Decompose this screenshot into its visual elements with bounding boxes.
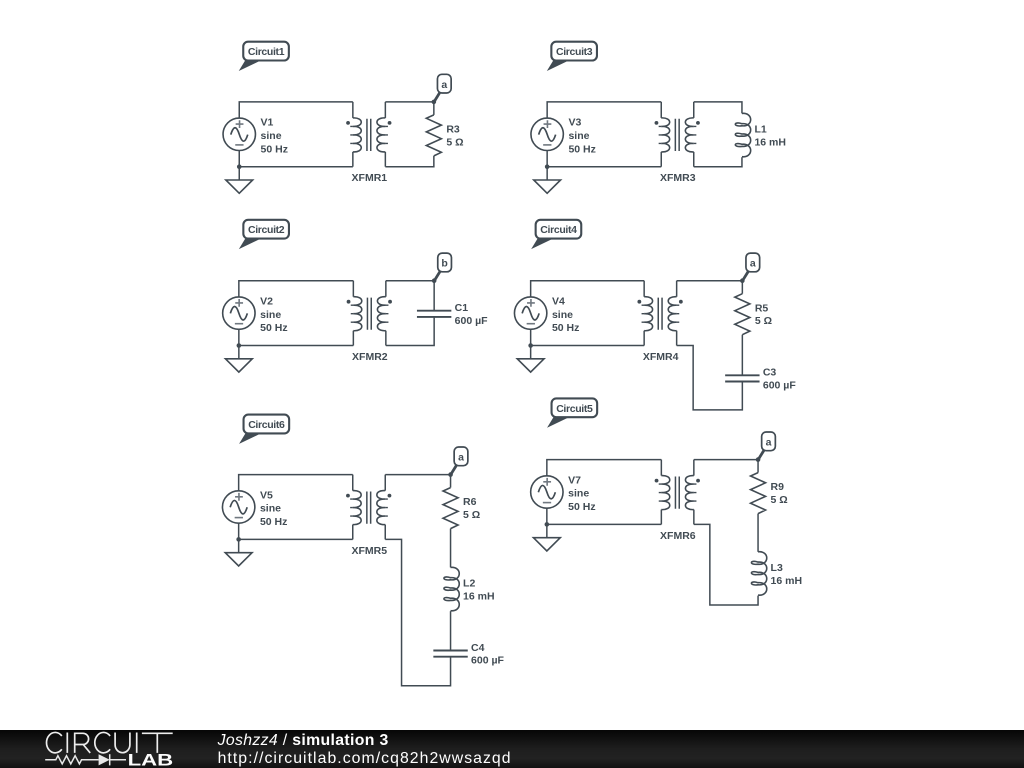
label V7 value: [568, 474, 595, 513]
svg-text:50 Hz: 50 Hz: [552, 322, 579, 334]
junction at V5 minus / ground: [236, 537, 241, 542]
resistor R5: [735, 281, 750, 335]
svg-text:C1: C1: [455, 302, 469, 314]
wire R3 bottom to secondary: [385, 156, 434, 167]
transformer XFMR3: [655, 102, 700, 167]
wire V2+ to primary top: [239, 281, 354, 297]
label V2 value: [260, 296, 287, 335]
transformer XFMR2: [347, 281, 392, 346]
svg-text:V7: V7: [568, 474, 581, 486]
wire C1 bottom to secondary: [386, 317, 434, 346]
junction node a: [448, 472, 453, 477]
svg-text:sine: sine: [568, 488, 589, 500]
wire L1 bottom to secondary: [694, 157, 742, 167]
ground: [225, 539, 252, 566]
svg-text:R9: R9: [771, 481, 785, 493]
wire secondary top to L1: [694, 102, 742, 114]
svg-text:16 mH: 16 mH: [463, 591, 495, 603]
label C1 value: [455, 302, 488, 327]
junction node a: [740, 278, 745, 283]
label L2 value: [463, 578, 495, 603]
junction at V2 minus / ground: [237, 343, 242, 348]
annotation bubble Circuit4: [531, 220, 581, 249]
svg-text:Circuit6: Circuit6: [248, 419, 285, 431]
junction node a: [756, 457, 761, 462]
wire L3 bottom to secondary: [694, 524, 758, 605]
transformer XFMR5: [346, 475, 391, 540]
capacitor C3: [725, 375, 759, 381]
svg-text:L2: L2: [463, 578, 475, 590]
svg-text:sine: sine: [568, 130, 589, 142]
label V5 value: [260, 489, 287, 528]
wire L2 to C4: [450, 611, 452, 650]
capacitor C4: [433, 651, 467, 657]
svg-text:b: b: [441, 258, 447, 270]
junction at V1 minus / ground: [237, 164, 242, 169]
junction at V4 minus / ground: [528, 343, 533, 348]
junction node a: [432, 100, 437, 105]
svg-text:a: a: [441, 79, 447, 91]
wire C3 bottom to secondary: [677, 346, 743, 410]
svg-text:V5: V5: [260, 489, 273, 501]
svg-text:C4: C4: [471, 642, 485, 654]
wire C4 bottom to secondary: [385, 539, 450, 685]
node flag a: [451, 447, 468, 474]
transformer XFMR6: [655, 460, 700, 525]
label V4 value: [552, 296, 579, 335]
svg-text:50 Hz: 50 Hz: [568, 501, 595, 513]
voltage source V1 (sine): [223, 118, 255, 150]
svg-text:50 Hz: 50 Hz: [568, 143, 595, 155]
svg-text:Circuit1: Circuit1: [248, 46, 285, 58]
wire V5+ to primary top: [239, 475, 353, 491]
voltage source V7 (sine): [531, 476, 563, 508]
inductor L2: [444, 567, 459, 610]
wire node b to C1: [433, 281, 435, 311]
label R5 value: [755, 302, 772, 327]
wire secondary top to node a: [677, 280, 743, 282]
resistor R9: [751, 460, 766, 514]
junction at V3 minus / ground: [545, 164, 550, 169]
ground: [517, 346, 544, 373]
svg-text:16 mH: 16 mH: [771, 575, 803, 587]
CircuitLab logo: CIRCUIT wordmark: [47, 732, 173, 752]
transformer XFMR1: [346, 102, 391, 167]
label V1 value: [261, 117, 288, 156]
wire V1- to primary bottom: [239, 151, 353, 167]
wire V5- to primary bottom: [239, 523, 353, 539]
svg-text:L1: L1: [754, 124, 766, 136]
svg-text:Circuit2: Circuit2: [248, 224, 285, 236]
svg-text:5 Ω: 5 Ω: [755, 315, 772, 327]
svg-text:5 Ω: 5 Ω: [463, 509, 480, 521]
inductor L1: [735, 113, 750, 156]
svg-text:sine: sine: [260, 309, 281, 321]
svg-text:V4: V4: [552, 296, 565, 308]
svg-text:Circuit4: Circuit4: [540, 224, 577, 236]
svg-text:XFMR6: XFMR6: [660, 530, 696, 542]
wire V2- to primary bottom: [239, 329, 354, 345]
svg-text:R5: R5: [755, 302, 769, 314]
svg-text:R6: R6: [463, 496, 477, 508]
svg-text:V2: V2: [260, 296, 273, 308]
wire V7- to primary bottom: [547, 508, 662, 524]
wire R6 to L2: [450, 529, 452, 568]
label R6 value: [463, 496, 480, 521]
svg-text:a: a: [766, 437, 772, 449]
svg-text:5 Ω: 5 Ω: [446, 136, 463, 148]
svg-text:V1: V1: [261, 117, 274, 129]
annotation bubble Circuit6: [239, 415, 289, 444]
ground: [534, 167, 561, 194]
svg-text:a: a: [750, 258, 756, 270]
svg-text:XFMR4: XFMR4: [643, 351, 679, 363]
wire secondary top to node b: [386, 280, 434, 282]
svg-text:L3: L3: [771, 562, 783, 574]
wire V7+ to primary top: [547, 460, 662, 476]
voltage source V3 (sine): [531, 118, 563, 150]
voltage source V5 (sine): [222, 491, 254, 523]
wire secondary top to node a: [385, 474, 450, 476]
CircuitLab logo: resistor-diode glyph: [45, 754, 126, 765]
annotation bubble Circuit1: [239, 42, 289, 71]
svg-text:R3: R3: [446, 124, 460, 136]
footer bar: [0, 730, 1024, 768]
label C4 value: [471, 642, 504, 667]
svg-text:50 Hz: 50 Hz: [261, 143, 288, 155]
wire R9 to L3: [757, 514, 759, 552]
svg-text:50 Hz: 50 Hz: [260, 516, 287, 528]
voltage source V4 (sine): [514, 297, 546, 329]
junction at V7 minus / ground: [545, 522, 550, 527]
annotation bubble Circuit3: [547, 42, 597, 71]
label V3 value: [568, 117, 595, 156]
node flag a: [434, 74, 451, 101]
svg-text:http://circuitlab.com/cq82h2ww: http://circuitlab.com/cq82h2wwsazqd: [218, 750, 512, 767]
svg-text:a: a: [458, 452, 464, 464]
wire V3+ to primary top: [547, 102, 661, 118]
svg-text:sine: sine: [552, 309, 573, 321]
capacitor C1: [417, 311, 451, 317]
ground: [225, 346, 252, 373]
svg-text:XFMR3: XFMR3: [660, 172, 696, 184]
svg-text:XFMR5: XFMR5: [351, 545, 387, 557]
wire secondary top to node a: [385, 101, 434, 103]
label L3 value: [771, 562, 803, 587]
svg-text:Circuit5: Circuit5: [556, 403, 593, 415]
label C3 value: [763, 367, 796, 392]
resistor R3: [426, 102, 441, 156]
node flag a: [743, 253, 760, 280]
inductor L3: [751, 552, 766, 595]
annotation bubble Circuit2: [239, 220, 289, 249]
svg-text:600 µF: 600 µF: [763, 380, 796, 392]
label R3 value: [446, 124, 463, 149]
svg-text:XFMR2: XFMR2: [352, 351, 388, 363]
svg-text:5 Ω: 5 Ω: [771, 494, 788, 506]
svg-text:sine: sine: [261, 130, 282, 142]
voltage source V2 (sine): [223, 297, 255, 329]
svg-text:16 mH: 16 mH: [754, 137, 786, 149]
wire secondary top to node a: [694, 459, 758, 461]
svg-text:C3: C3: [763, 367, 777, 379]
svg-text:Joshzz4 / simulation 3: Joshzz4 / simulation 3: [217, 732, 389, 749]
svg-text:sine: sine: [260, 503, 281, 515]
wire V4+ to primary top: [531, 281, 645, 297]
wire V3- to primary bottom: [547, 151, 661, 167]
svg-text:600 µF: 600 µF: [471, 655, 504, 667]
resistor R6: [443, 475, 458, 529]
junction node b: [432, 278, 437, 283]
svg-text:Circuit3: Circuit3: [556, 46, 593, 58]
ground: [533, 524, 560, 551]
node flag b: [435, 253, 452, 280]
annotation bubble Circuit5: [547, 398, 597, 427]
wire V4- to primary bottom: [531, 329, 645, 345]
svg-text:600 µF: 600 µF: [455, 315, 488, 327]
svg-text:V3: V3: [568, 117, 581, 129]
svg-text:50 Hz: 50 Hz: [260, 322, 287, 334]
svg-text:XFMR1: XFMR1: [352, 172, 388, 184]
node flag a: [758, 432, 775, 459]
label R9 value: [771, 481, 788, 506]
wire V1+ to primary top: [239, 102, 353, 118]
transformer XFMR4: [637, 281, 682, 346]
svg-text:LAB: LAB: [128, 751, 174, 768]
ground: [226, 167, 253, 194]
wire R5 to C3: [741, 335, 743, 376]
label L1 value: [754, 124, 786, 149]
